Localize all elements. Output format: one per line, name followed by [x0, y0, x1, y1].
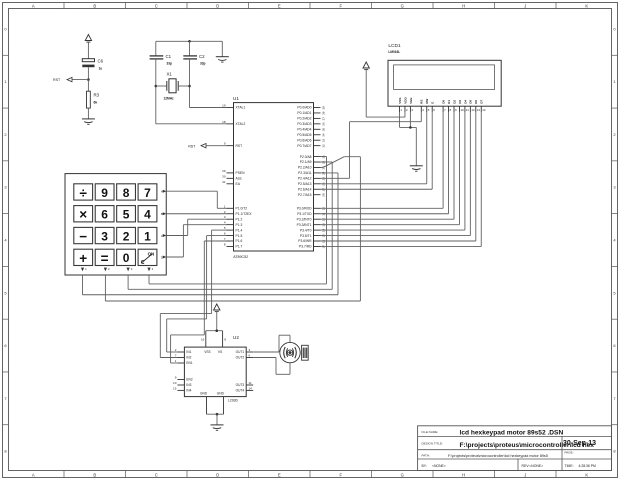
svg-text:PAGE:: PAGE: [565, 451, 574, 455]
svg-text:EN2: EN2 [186, 378, 192, 382]
svg-text:P3.0/RXD: P3.0/RXD [297, 207, 312, 211]
svg-text:P1.2: P1.2 [236, 217, 243, 221]
U2 top pins VSS VS and VCC [201, 331, 226, 354]
svg-text:EN1: EN1 [186, 361, 192, 365]
wire LCD D3 to P3.3 [321, 112, 460, 225]
svg-text:OUT1: OUT1 [236, 350, 245, 354]
svg-text:A: A [161, 190, 163, 194]
svg-text:13: 13 [477, 108, 481, 112]
svg-text:LCD1: LCD1 [388, 43, 401, 49]
svg-text:ON: ON [148, 251, 155, 256]
ground (osc) [216, 41, 229, 62]
svg-text:J: J [524, 473, 526, 478]
motor (DC motor symbol) [280, 342, 308, 362]
svg-text:P1.5: P1.5 [236, 234, 243, 238]
wire LCD D5 to P3.5 [321, 112, 471, 236]
wire keypad col4 to P2.0 [149, 157, 327, 284]
svg-text:7: 7 [144, 186, 151, 200]
svg-text:D7: D7 [480, 100, 484, 104]
node X1 right junction [188, 85, 191, 88]
svg-text:IN3: IN3 [186, 383, 191, 387]
wire E to P2.6 [321, 112, 433, 189]
svg-text:F:\projects\proteus\microcontr: F:\projects\proteus\microcontroller\lcd … [448, 454, 548, 458]
svg-text:D1: D1 [447, 100, 451, 104]
wire osc top rail [156, 40, 223, 42]
svg-text:5: 5 [123, 208, 130, 222]
svg-text:6k: 6k [94, 101, 98, 105]
svg-text:GND: GND [200, 391, 208, 395]
svg-text:P1.6: P1.6 [236, 239, 243, 243]
svg-text:IN1: IN1 [186, 350, 191, 354]
svg-text:PATH:: PATH: [422, 454, 431, 458]
wire keypad row D to P1.3 [166, 225, 226, 257]
wire P1.4 to IN2 [160, 230, 226, 357]
svg-text:0: 0 [123, 251, 130, 265]
node RST junction [87, 78, 90, 81]
svg-text:E: E [278, 473, 281, 478]
svg-text:P2.1/A9: P2.1/A9 [300, 160, 312, 164]
svg-text:F: F [339, 473, 342, 478]
wire LCD D2 to P3.2 [321, 112, 455, 219]
svg-text:F: F [339, 4, 342, 9]
wire keypad col3 to P2.1 [128, 162, 332, 289]
svg-text:lcd hexkeypad motor 89s52 .DSN: lcd hexkeypad motor 89s52 .DSN [460, 430, 564, 437]
wire LCD D1 to P3.1 [321, 112, 449, 214]
svg-text:P0.2/AD2: P0.2/AD2 [297, 117, 311, 121]
wire VDD to VCC [366, 112, 405, 117]
svg-text:GND: GND [217, 391, 225, 395]
svg-text:G: G [401, 473, 404, 478]
svg-text:A: A [32, 473, 35, 478]
svg-text:P2.6/A14: P2.6/A14 [298, 187, 312, 191]
svg-text:P2.7/A15: P2.7/A15 [298, 193, 312, 197]
svg-text:VS: VS [218, 350, 222, 354]
svg-text:10: 10 [173, 381, 177, 385]
ground (reset) [82, 119, 95, 124]
node X1 left junction [155, 85, 158, 88]
svg-text:4:28:36 PM: 4:28:36 PM [579, 464, 597, 468]
LCD1 LM016L labels [388, 43, 401, 54]
wire keypad col1 to P2.3 [83, 173, 339, 295]
svg-text:6: 6 [101, 208, 108, 222]
svg-text:RST: RST [236, 144, 243, 148]
svg-text:9: 9 [101, 186, 108, 200]
svg-text:B: B [93, 4, 96, 9]
title block frame [418, 426, 612, 471]
svg-text:IN4: IN4 [186, 389, 191, 393]
svg-text:OUT2: OUT2 [236, 356, 245, 360]
svg-text:XTAL2: XTAL2 [236, 122, 246, 126]
svg-text:11: 11 [249, 381, 252, 385]
svg-text:E: E [278, 4, 281, 9]
svg-text:G: G [401, 4, 404, 9]
svg-text:4: 4 [144, 208, 151, 222]
svg-text:TIME:: TIME: [565, 464, 574, 468]
wire LCD D7 to P3.7 [321, 112, 482, 246]
svg-text:P2.4/A12: P2.4/A12 [298, 177, 312, 181]
svg-text:K: K [585, 473, 588, 478]
svg-text:D: D [216, 473, 219, 478]
svg-text:DESIGN TITLE:: DESIGN TITLE: [422, 442, 443, 446]
svg-text:C1: C1 [166, 54, 172, 59]
terminal RST (U1) [188, 143, 226, 148]
svg-text:A: A [32, 4, 35, 9]
capacitor C6 [82, 59, 103, 80]
svg-text:H: H [462, 4, 465, 9]
keypad keys 4x4 [74, 184, 157, 266]
svg-text:P1.7: P1.7 [236, 245, 243, 249]
svg-text:P3.1/TXD: P3.1/TXD [297, 212, 312, 216]
svg-text:XTAL1: XTAL1 [236, 106, 246, 110]
svg-text:U1: U1 [233, 96, 239, 101]
svg-text:10: 10 [460, 108, 464, 112]
svg-text:33: 33 [321, 139, 325, 143]
svg-text:P3.5/T1: P3.5/T1 [300, 234, 312, 238]
keypad terminals [81, 190, 166, 272]
svg-text:P1.3: P1.3 [236, 223, 243, 227]
svg-text:AT89C52: AT89C52 [233, 255, 248, 259]
svg-text:36: 36 [321, 122, 325, 126]
svg-text:38: 38 [321, 111, 325, 115]
node C2 top junction [188, 40, 191, 43]
svg-text:29: 29 [222, 169, 226, 173]
svg-text:28: 28 [321, 193, 325, 197]
svg-text:−: − [79, 229, 87, 244]
resistor R3 [87, 80, 100, 119]
ground (LCD) [410, 166, 423, 171]
wire XTAL1 [190, 107, 227, 109]
wire keypad row B to P1.1 [166, 213, 226, 215]
wire keypad row C to P1.2 [166, 219, 226, 235]
svg-text:VSS: VSS [398, 98, 402, 104]
svg-text:B: B [93, 473, 96, 478]
wire keypad row A to P1.0 [166, 191, 226, 208]
svg-text:D0: D0 [442, 100, 446, 104]
svg-text:P3.7/RD: P3.7/RD [299, 245, 312, 249]
svg-text:P1.0/T2: P1.0/T2 [236, 207, 248, 211]
svg-text:8: 8 [123, 186, 130, 200]
svg-text:D4: D4 [463, 100, 467, 104]
svg-text:P2.3/A11: P2.3/A11 [298, 171, 311, 175]
svg-text:1: 1 [144, 229, 151, 243]
svg-text:OUT4: OUT4 [236, 389, 245, 393]
svg-text:2: 2 [123, 229, 130, 243]
wire OUT1 to motor top [253, 335, 290, 352]
wire P1.5 to IN1 [167, 236, 227, 352]
U2 left pins IN1 IN2 EN1 EN2 IN3 IN4 [173, 348, 193, 393]
wire OUT2 to motor bottom [253, 358, 290, 375]
svg-text:P0.7/AD7: P0.7/AD7 [297, 144, 311, 148]
keypad body [65, 174, 166, 275]
wire keypad col2 to P2.2 (with diagonal) [105, 157, 360, 301]
svg-text:15: 15 [173, 386, 177, 390]
svg-text:VDD: VDD [403, 97, 407, 104]
svg-text:P3.6/WR: P3.6/WR [298, 239, 312, 243]
svg-text:H: H [462, 473, 465, 478]
svg-text:P0.3/AD3: P0.3/AD3 [297, 122, 311, 126]
power VCC (LCD) [363, 62, 369, 117]
svg-text:RS: RS [420, 99, 424, 103]
svg-text:REV:<NONE>: REV:<NONE> [522, 464, 544, 468]
terminal RST (left) [53, 77, 88, 82]
svg-text:U2: U2 [233, 335, 239, 340]
power VCC (U2) [214, 304, 220, 332]
svg-text:FILE NAME:: FILE NAME: [422, 430, 439, 434]
svg-text:30-Sep-13: 30-Sep-13 [563, 440, 596, 447]
wire LCD D0 to P3.0 [321, 112, 444, 208]
svg-text:35: 35 [321, 128, 325, 132]
LCD1 pins VSS VDD VEE RS RW E D0-D7 [398, 97, 486, 113]
svg-text:C2: C2 [199, 54, 205, 59]
svg-text:X1: X1 [167, 72, 173, 77]
svg-text:P3.4/T0: P3.4/T0 [300, 228, 312, 232]
U2 bottom GND pins [200, 391, 225, 414]
svg-text:P0.4/AD4: P0.4/AD4 [297, 128, 311, 132]
svg-text:C: C [141, 260, 145, 266]
wire VEE to ground net [409, 112, 412, 129]
svg-text:B: B [161, 212, 163, 216]
capacitor C1 [150, 41, 172, 124]
motor driver U2 L293D body [184, 335, 246, 402]
svg-text:P3.3/INT1: P3.3/INT1 [297, 223, 312, 227]
svg-text:3: 3 [101, 229, 108, 243]
svg-text:÷: ÷ [79, 185, 87, 200]
U2 right pins OUT1-OUT4 [236, 348, 254, 393]
svg-text:RW: RW [425, 99, 429, 104]
wire VSS to ground [400, 112, 417, 166]
svg-text:14: 14 [249, 386, 253, 390]
node U2 ground junction [216, 413, 219, 425]
svg-text:P0.1/AD1: P0.1/AD1 [297, 111, 311, 115]
svg-text:×: × [79, 207, 87, 222]
wire XTAL2 [156, 123, 227, 125]
svg-text:RST: RST [53, 78, 61, 82]
crystal X1 [156, 72, 190, 101]
svg-text:D2: D2 [452, 100, 456, 104]
U1 right pins (P0.0-P0.7,P2.0-P2.7,P3.0-P3.7) [297, 106, 326, 249]
svg-text:PSEN: PSEN [236, 171, 246, 175]
wire LCD D6 to P3.6 [321, 112, 476, 241]
capacitor C2 [183, 41, 205, 107]
svg-text:LM016L: LM016L [388, 50, 400, 54]
wire RW to P2.5 [321, 112, 427, 184]
svg-text:39: 39 [321, 106, 325, 110]
svg-text:19: 19 [222, 104, 226, 108]
title block text [422, 430, 597, 468]
svg-text:C: C [155, 4, 158, 9]
svg-text:ALE: ALE [236, 177, 243, 181]
svg-text:D5: D5 [469, 100, 473, 104]
svg-text:33p: 33p [167, 62, 173, 66]
svg-text:C6: C6 [98, 59, 104, 64]
svg-text:IN2: IN2 [186, 356, 191, 360]
svg-text:34: 34 [321, 133, 325, 137]
svg-text:P1.1/T2EX: P1.1/T2EX [236, 212, 253, 216]
svg-text:E: E [431, 102, 435, 104]
svg-text:12MHz: 12MHz [164, 97, 175, 101]
wire RS to P2.4 [321, 112, 422, 178]
svg-text:<NONE>: <NONE> [432, 464, 446, 468]
power VCC (reset circuit) [85, 35, 91, 59]
svg-text:30: 30 [222, 174, 226, 178]
svg-text:32: 32 [321, 144, 325, 148]
svg-text:18: 18 [222, 120, 226, 124]
svg-text:RST: RST [188, 144, 196, 148]
svg-text:C: C [155, 473, 158, 478]
svg-text:R3: R3 [94, 93, 100, 98]
svg-text:P0.5/AD5: P0.5/AD5 [297, 133, 311, 137]
svg-text:11: 11 [466, 108, 469, 112]
svg-text:33p: 33p [200, 62, 206, 66]
svg-text:P3.2/INT0: P3.2/INT0 [297, 217, 312, 221]
svg-text:BY:: BY: [422, 464, 427, 468]
svg-text:L293D: L293D [228, 398, 239, 402]
svg-text:14: 14 [482, 108, 486, 112]
svg-text:D: D [216, 4, 219, 9]
svg-text:D6: D6 [474, 100, 478, 104]
svg-text:J: J [524, 4, 526, 9]
svg-text:=: = [101, 251, 109, 266]
svg-text:VEE: VEE [409, 98, 413, 104]
svg-text:+: + [79, 251, 87, 266]
svg-text:OUT3: OUT3 [236, 383, 245, 387]
svg-text:P1.4: P1.4 [236, 228, 243, 232]
svg-text:37: 37 [321, 117, 325, 121]
wire LCD D4 to P3.4 [321, 112, 465, 230]
svg-text:12: 12 [471, 108, 475, 112]
svg-text:P2.5/A13: P2.5/A13 [298, 182, 312, 186]
svg-text:D3: D3 [458, 100, 462, 104]
svg-text:P2.2/A10: P2.2/A10 [298, 166, 312, 170]
svg-text:P0.0/AD0: P0.0/AD0 [297, 106, 311, 110]
svg-text:P2.0/A8: P2.0/A8 [300, 155, 312, 159]
microcontroller U1 AT89C52 [233, 96, 314, 259]
LCD1 body [388, 60, 501, 106]
svg-text:P0.6/AD6: P0.6/AD6 [297, 138, 311, 142]
svg-text:1u: 1u [99, 67, 103, 71]
wire P1.6 to EN1 [171, 241, 227, 363]
U1 left pins (XTAL1,XTAL2,RST,PSEN,ALE,EA,P1.0-P1.7) [222, 104, 252, 249]
svg-text:VSS: VSS [204, 350, 210, 354]
ground (U2) [211, 425, 224, 430]
svg-text:K: K [585, 4, 588, 9]
svg-text:31: 31 [222, 180, 226, 184]
svg-text:16: 16 [201, 338, 205, 342]
